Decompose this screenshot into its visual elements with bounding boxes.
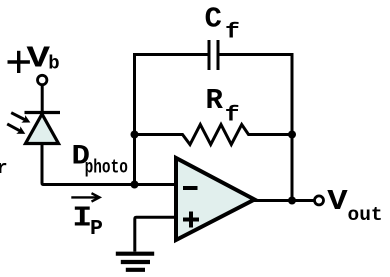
svg-text:V: V — [327, 186, 347, 218]
svg-text:photo: photo — [85, 158, 128, 179]
svg-text:C: C — [205, 2, 222, 35]
svg-text:f: f — [225, 103, 240, 127]
svg-text:V: V — [27, 41, 50, 76]
svg-text:R: R — [206, 84, 224, 117]
svg-text:out: out — [348, 204, 383, 226]
svg-text:P: P — [90, 217, 103, 241]
svg-text:r: r — [0, 159, 8, 179]
svg-text:f: f — [225, 20, 240, 44]
svg-text:b: b — [48, 52, 59, 74]
